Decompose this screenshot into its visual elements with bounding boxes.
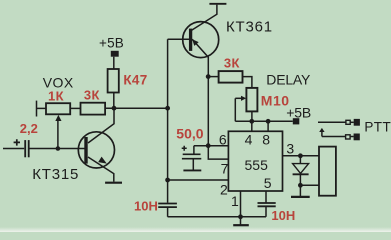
svg-text:5: 5 [264,175,272,191]
svg-text:50,0: 50,0 [176,126,203,142]
svg-text:1К: 1К [48,88,64,103]
svg-text:М10: М10 [261,93,290,109]
svg-text:PTT: PTT [364,120,391,135]
svg-text:10Н: 10Н [134,198,158,213]
svg-text:DELAY: DELAY [266,72,311,88]
svg-text:2,2: 2,2 [20,121,38,136]
svg-text:8: 8 [262,131,270,147]
svg-text:4: 4 [245,131,253,147]
svg-text:2: 2 [220,181,228,197]
svg-text:6: 6 [219,131,227,147]
svg-text:+5В: +5В [286,104,311,120]
svg-text:7: 7 [221,160,229,176]
svg-text:555: 555 [245,157,269,173]
svg-text:3: 3 [286,141,294,157]
svg-text:+5В: +5В [99,36,124,51]
svg-text:10Н: 10Н [271,208,295,223]
svg-text:К47: К47 [123,73,147,88]
svg-text:1: 1 [231,193,239,209]
svg-text:КТ361: КТ361 [226,18,273,35]
svg-text:3К: 3К [224,55,240,70]
svg-text:3К: 3К [84,88,100,103]
svg-text:КТ315: КТ315 [32,166,79,183]
